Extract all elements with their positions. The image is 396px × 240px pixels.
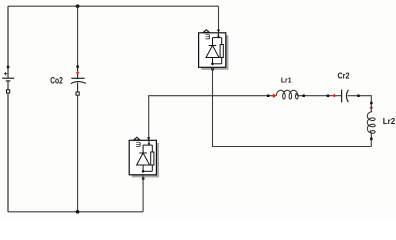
port marker D2 bottom [142, 177, 145, 180]
wire D1 bottom to lower return rail (crosses mid rail, no junction) [213, 67, 372, 146]
port marker Lr1 left [267, 95, 270, 98]
port marker Lr1 right [302, 95, 305, 98]
diode block D1 [199, 30, 229, 70]
svg-text:Lr2: Lr2 [383, 116, 396, 126]
wire left vertical from top rail to DC source [7, 6, 9, 66]
wire Co2 branch upper [77, 6, 79, 65]
wire Lr2 top lead [370, 104, 372, 111]
capacitor Cr2 [342, 90, 349, 103]
port marker Cr2 right [357, 95, 360, 98]
wire lower return rail right riser to Lr2 [370, 140, 372, 147]
port marker Lr2 top [370, 102, 373, 105]
node junction bottom (Co2 tap) [76, 210, 80, 214]
wire top rail [8, 5, 219, 7]
svg-text:Lr1: Lr1 [281, 76, 292, 85]
port marker Lr2 bottom [370, 138, 373, 141]
wire diode block D1 top feed [218, 6, 220, 30]
diode block D2 [129, 137, 159, 177]
wire from Co2 to bottom rail [77, 95, 79, 212]
wire from DC source to bottom rail [7, 93, 9, 212]
wire bottom rail [8, 211, 143, 213]
node junction top (Co2 tap) [76, 4, 80, 8]
wire D1 arrowhead into top port [217, 30, 220, 33]
wire mid rail (block D2 top to Lr2 top) [149, 96, 372, 141]
wire D2 arrowhead into top port [147, 137, 150, 140]
capacitor Co2 [71, 65, 86, 95]
wire D2 bottom to bottom rail [142, 176, 144, 212]
battery E1 (DC voltage source) [2, 66, 14, 93]
port marker D1 bottom [211, 68, 214, 71]
polarity plus Cr2 (red) [333, 94, 336, 97]
wire Lr2 bottom lead [370, 132, 372, 138]
svg-text:Cr2: Cr2 [337, 72, 349, 81]
inductor Lr2 [367, 112, 375, 134]
inductor Lr1 [276, 90, 298, 99]
polarity arrow Lr1 (red) [272, 94, 276, 97]
port marker Cr2 left [327, 95, 330, 98]
polarity plus Lr2 (red) [370, 106, 373, 109]
svg-text:Co2: Co2 [50, 76, 63, 86]
